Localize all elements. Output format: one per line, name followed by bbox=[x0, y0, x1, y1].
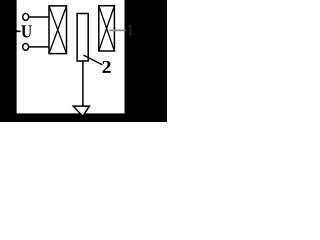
wire from upper terminal to converter 1 bbox=[29, 16, 49, 18]
measuring element box 2 (middle rectangle) bbox=[77, 14, 88, 62]
minus dash before label U bbox=[16, 30, 21, 32]
wire from middle box down to ground bbox=[82, 61, 84, 106]
gray stub wire from right converter into dark margin bbox=[110, 29, 126, 31]
bottom black band bbox=[0, 113, 167, 122]
label 2 bbox=[102, 61, 110, 73]
terminal circle (lower input) bbox=[23, 43, 29, 50]
converter box U1 (left crossed box) bbox=[49, 6, 67, 54]
faint label 1 on dark margin bbox=[127, 25, 133, 36]
ground (open triangle) bbox=[73, 106, 89, 116]
terminal circle (upper input) bbox=[23, 14, 29, 21]
left black margin block bbox=[0, 0, 17, 122]
right black margin block bbox=[125, 0, 168, 122]
label U (input voltage) bbox=[21, 25, 32, 37]
leader line from label 2 to middle box bbox=[84, 55, 103, 65]
converter box U2 (right crossed box) bbox=[99, 6, 115, 51]
white background bbox=[0, 0, 167, 122]
wire from lower terminal to converter 1 bbox=[29, 46, 49, 48]
